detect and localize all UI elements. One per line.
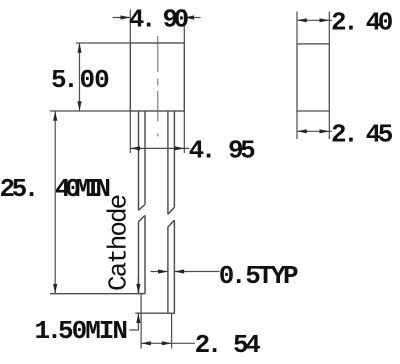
dimension 4.90 left arrow shaft [113, 17, 130, 19]
svg-text:2.: 2. [331, 120, 355, 150]
extension line 5.00 / 25.40 at body bottom [50, 110, 130, 112]
cathode lead lower segment right edge [144, 215, 146, 293]
dimension 0.5TYP right shaft with leader to text [174, 271, 219, 273]
arrowhead 2.40 left (points left) [297, 18, 307, 22]
svg-text:45: 45 [366, 120, 393, 150]
extension line 5.00 top [76, 42, 130, 44]
arrowhead 4.90 left (points right at ext line) [121, 15, 131, 19]
anode lead upper segment right edge [173, 111, 175, 207]
extension line 2.54 left [140, 294, 142, 349]
svg-text:4.: 4. [189, 136, 213, 166]
svg-text:00: 00 [80, 65, 110, 95]
extension line 4.95 left [129, 111, 131, 153]
arrowhead 25.40MIN bottom (points down) [53, 284, 57, 294]
arrowhead 0.5TYP left (points right) [158, 269, 168, 273]
dimension line 2.45 with leader to text [297, 130, 332, 132]
extension line above body left (4.90) [129, 10, 131, 44]
cathode lead lower break diagonal [139, 215, 146, 221]
arrowhead 4.90 right (points left at ext line) [184, 15, 194, 19]
svg-text:4.: 4. [129, 5, 153, 35]
arrowhead 5.00 bottom (points down) [77, 101, 81, 111]
cathode lead (left) upper segment left edge [138, 111, 140, 210]
arrowhead 2.40 right (points right) [320, 18, 330, 22]
extension line 4.95 right [183, 111, 185, 153]
anode lead bottom line [135, 312, 175, 314]
anode lead (right) upper segment left edge [167, 111, 169, 214]
dimension line 4.95 with leader to text [130, 147, 189, 149]
extension line above body right (4.90) [183, 10, 185, 44]
svg-text:40MIN: 40MIN [55, 174, 109, 204]
arrowhead 0.5TYP right (points left) [174, 269, 184, 273]
arrowhead 1.50MIN lower (points up) [136, 313, 140, 323]
svg-text:90: 90 [163, 5, 189, 35]
arrowhead 4.95 left (points left) [130, 146, 140, 150]
svg-text:5.: 5. [51, 65, 75, 95]
dimension 0.5TYP left shaft [151, 271, 168, 273]
dimension line 2.54 with leader to text [141, 342, 195, 344]
centerline (dash-dot) of body [157, 36, 159, 137]
dimension 4.90 right arrow shaft [185, 17, 201, 19]
dimension line 25.40MIN [54, 111, 56, 294]
1.50MIN lower (up) arrow shaft and leader to text [129, 313, 138, 330]
svg-text:0.: 0. [219, 261, 243, 291]
extension line 2.40 right [328, 12, 330, 44]
1.50MIN upper (down) arrow shaft [137, 276, 139, 294]
svg-text:2.: 2. [195, 330, 219, 360]
cathode lead lower segment left edge [138, 222, 140, 294]
svg-text:50MIN: 50MIN [58, 316, 126, 346]
svg-text:5TYP: 5TYP [245, 261, 298, 291]
dimension line 2.40 with leader to text [297, 19, 332, 21]
arrowhead 25.40MIN top (points up) [53, 111, 57, 121]
svg-text:40: 40 [366, 8, 393, 38]
arrowhead 2.45 right (points right) [320, 129, 330, 133]
svg-text:1.: 1. [35, 316, 59, 346]
extension line 2.54 right [171, 313, 173, 348]
svg-text:2.: 2. [331, 8, 355, 38]
extension line 2.45 right [328, 111, 330, 139]
extension line 2.45 left [296, 111, 298, 139]
dimension line 5.00 [79, 43, 81, 111]
anode lead lower break diagonal [168, 220, 175, 227]
cathode lead upper break diagonal [139, 204, 146, 210]
anode lead lower segment left edge [167, 227, 169, 313]
arrowhead 2.45 left (points left) [297, 129, 307, 133]
arrowhead 4.95 right (points right) [175, 146, 185, 150]
extension line at cathode lead end (25.40MIN bottom) [50, 293, 145, 295]
anode lead upper break diagonal [168, 207, 175, 214]
extension line 2.40 left [296, 12, 298, 44]
svg-text:95: 95 [228, 136, 255, 166]
arrowhead 1.50MIN upper (points down) [136, 284, 140, 294]
svg-text:54: 54 [233, 330, 260, 360]
arrowhead 2.54 left (points left) [141, 341, 151, 345]
arrowhead 5.00 top (points up) [77, 43, 81, 53]
arrowhead 2.54 right (points right) [162, 341, 172, 345]
svg-text:25.: 25. [0, 174, 36, 204]
anode lead lower segment right edge [173, 220, 175, 313]
cathode lead upper segment right edge [144, 111, 146, 204]
svg-text:Cathode: Cathode [104, 195, 134, 291]
side view body outline [297, 44, 329, 111]
body front view outline [130, 43, 184, 111]
